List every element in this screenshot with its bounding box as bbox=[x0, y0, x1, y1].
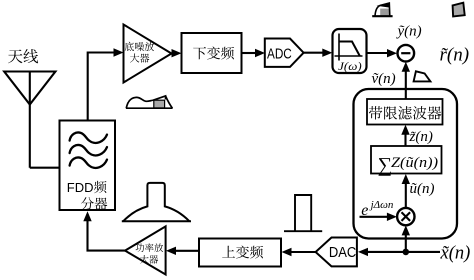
wire PA to FDD duplexer bbox=[83, 211, 125, 250]
filter response axes inside J(w) bbox=[335, 34, 363, 61]
small spectrum icon top (hill with gray block) bbox=[372, 3, 392, 16]
wire sum-block to bandlimit filter z~(n) bbox=[401, 125, 409, 146]
antenna symbol bbox=[4, 72, 55, 168]
svg-text:ũ(n): ũ(n) bbox=[410, 181, 435, 197]
wire bandlimit filter up to subtractor v~(n) bbox=[402, 62, 410, 99]
wire FDD top to LNA input bbox=[88, 48, 124, 120]
ADC block bbox=[265, 39, 304, 67]
label: x~(n) bbox=[440, 243, 471, 263]
wire ADC to J(w) filter bbox=[304, 49, 333, 57]
wire e^jDwn to multiplier bbox=[360, 213, 397, 221]
sum block sigma Z(u~(n)) bbox=[371, 146, 442, 174]
small gray parallelogram icon top right bbox=[453, 3, 465, 17]
label: r~(n) bbox=[440, 45, 470, 66]
filter block J(w) rounded box bbox=[333, 29, 367, 73]
svg-text:jΔωn: jΔωn bbox=[369, 199, 394, 211]
multiplier circle (x) bbox=[397, 208, 414, 225]
label: J(omega) bbox=[338, 59, 362, 73]
svg-text:r̃(n): r̃(n) bbox=[440, 45, 470, 66]
label: 功率放 bbox=[136, 243, 164, 252]
label: z~(n) bbox=[409, 129, 433, 145]
wire x~(n) to DAC bbox=[358, 248, 440, 256]
junction node on x~(n) line bbox=[403, 249, 410, 256]
pulse spectrum icon above DAC wire bbox=[284, 195, 322, 231]
wave symbol 1 in FDD box bbox=[70, 132, 107, 142]
svg-text:J(ω): J(ω) bbox=[338, 59, 362, 73]
label: 下变频 bbox=[193, 46, 234, 59]
upconverter box 上变频 bbox=[199, 239, 281, 267]
svg-text:ṽ(n): ṽ(n) bbox=[372, 71, 396, 87]
downconverter box 下变频 bbox=[182, 33, 242, 73]
svg-text:z̃(n): z̃(n) bbox=[409, 129, 433, 145]
wire DAC to upconverter bbox=[282, 248, 316, 256]
label: ADC bbox=[267, 46, 292, 62]
wave symbol 2 in FDD box bbox=[70, 145, 107, 155]
wire J(w) to subtractor bbox=[367, 49, 398, 57]
svg-text:Z(ũ(n)): Z(ũ(n)) bbox=[391, 155, 438, 171]
wire multiplier to sum block u~(n) bbox=[402, 174, 410, 208]
wire junction up to multiplier bbox=[402, 225, 410, 252]
label: v~(n) bbox=[372, 71, 396, 87]
svg-text:ADC: ADC bbox=[267, 46, 292, 62]
label: FDD频 line 1 bbox=[67, 180, 107, 195]
svg-text:FDD: FDD bbox=[67, 180, 94, 195]
label: 上变频 bbox=[222, 245, 263, 258]
bandlimit filter box 带限滤波器 bbox=[367, 99, 443, 125]
small hump icon near subtractor bbox=[414, 71, 431, 81]
label: 大器 (PA) bbox=[140, 255, 158, 264]
DSP container rounded rectangle bbox=[354, 89, 458, 239]
wire antenna to FDD duplexer bbox=[30, 167, 60, 169]
svg-text:DAC: DAC bbox=[329, 245, 356, 261]
subtractor circle (minus) bbox=[398, 45, 415, 62]
filter response curve inside J(w) bbox=[339, 42, 360, 57]
wave symbol 3 in FDD box bbox=[70, 157, 107, 167]
svg-text:x̃(n): x̃(n) bbox=[440, 243, 471, 263]
svg-text:ỹ(n): ỹ(n) bbox=[396, 23, 422, 39]
label: 带限滤波器 bbox=[369, 106, 442, 120]
wire upconverter to PA bbox=[166, 247, 199, 255]
wire LNA to downconverter bbox=[172, 49, 182, 57]
FDD duplexer box bbox=[60, 121, 116, 211]
LNA amplifier triangle 底噪放大器 bbox=[124, 25, 172, 83]
power amplifier triangle 功率放大器 bbox=[125, 226, 166, 274]
wire downconverter to ADC bbox=[242, 49, 266, 57]
spectrum icon with adjacent channel (hill + gray block) bbox=[126, 96, 173, 108]
label: y~(n) bbox=[396, 23, 422, 39]
label: e^jDwn bbox=[361, 199, 394, 219]
label: 大器 (LNA) bbox=[130, 53, 149, 62]
label: 底噪放 bbox=[125, 42, 154, 51]
label: u~(n) bbox=[410, 181, 435, 197]
lamp spectrum icon above PA bbox=[122, 183, 191, 221]
DAC block bbox=[316, 238, 357, 267]
label: antenna 天线 bbox=[8, 49, 38, 63]
label: 分器 line 2 bbox=[81, 197, 107, 210]
label: DAC bbox=[329, 245, 356, 261]
label: sum Z(u~(n)) bbox=[378, 154, 439, 176]
